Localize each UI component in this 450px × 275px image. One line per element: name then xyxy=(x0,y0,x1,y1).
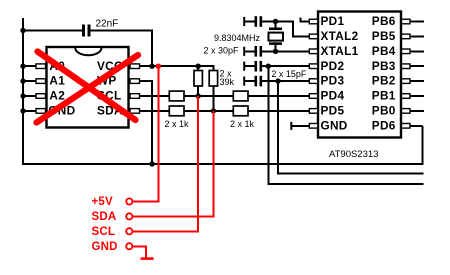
svg-text:PB0: PB0 xyxy=(372,104,396,118)
svg-text:PB2: PB2 xyxy=(372,74,396,88)
svg-text:A1: A1 xyxy=(49,74,65,88)
svg-text:39k: 39k xyxy=(220,77,235,87)
svg-text:PD4: PD4 xyxy=(321,89,345,103)
svg-text:2 x 30pF: 2 x 30pF xyxy=(204,46,240,56)
svg-text:PB1: PB1 xyxy=(372,89,396,103)
svg-text:PB4: PB4 xyxy=(372,44,396,58)
svg-text:SCL: SCL xyxy=(92,226,116,238)
svg-text:PD1: PD1 xyxy=(321,14,345,28)
svg-text:PB5: PB5 xyxy=(372,29,396,43)
svg-text:PB3: PB3 xyxy=(372,59,396,73)
svg-text:GND: GND xyxy=(92,241,118,253)
svg-text:PB6: PB6 xyxy=(372,14,396,28)
svg-text:22nF: 22nF xyxy=(96,19,119,30)
svg-text:GND: GND xyxy=(321,118,348,132)
svg-text:XTAL2: XTAL2 xyxy=(321,29,359,43)
svg-text:PD2: PD2 xyxy=(321,59,345,73)
svg-text:9.8304MHz: 9.8304MHz xyxy=(214,33,261,43)
svg-text:PD6: PD6 xyxy=(372,118,396,132)
svg-text:2 x 15pF: 2 x 15pF xyxy=(271,69,307,79)
svg-text:+5V: +5V xyxy=(92,196,114,208)
svg-text:PD3: PD3 xyxy=(321,74,345,88)
svg-text:XTAL1: XTAL1 xyxy=(321,44,359,58)
svg-text:A2: A2 xyxy=(49,89,65,103)
svg-text:AT90S2313: AT90S2313 xyxy=(329,149,378,160)
svg-text:2 x 1k: 2 x 1k xyxy=(230,119,255,129)
svg-text:SDA: SDA xyxy=(92,211,117,223)
svg-text:2 x 1k: 2 x 1k xyxy=(165,119,190,129)
svg-text:PD5: PD5 xyxy=(321,104,345,118)
